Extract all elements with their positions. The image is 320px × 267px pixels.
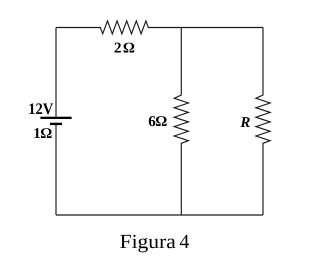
svg-text:2Ω: 2Ω [114, 40, 136, 56]
svg-text:6Ω: 6Ω [148, 114, 167, 130]
svg-text:4: 4 [179, 231, 189, 253]
svg-text:12V: 12V [28, 101, 53, 118]
svg-text:1Ω: 1Ω [33, 126, 52, 142]
svg-text:R: R [239, 115, 250, 131]
svg-text:Figura: Figura [120, 231, 176, 253]
